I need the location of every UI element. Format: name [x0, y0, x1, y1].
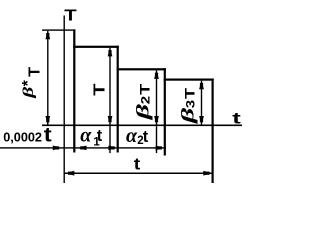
dimension D2 T line x=110 — [109, 48, 110, 125]
svg-text:t: t — [143, 128, 149, 146]
wire: step1 right edge x=74.3 — [73, 29, 75, 152]
wire: step4 right edge x=212.6 — [212, 79, 214, 184]
svg-text:t: t — [97, 127, 103, 145]
svg-text:T: T — [27, 67, 44, 77]
wire: step4 top y=79.6 — [164, 79, 214, 81]
arrow left tip x=65.8 — [66, 171, 75, 176]
arrow right tip x=164.9 — [156, 146, 165, 151]
svg-text:*: * — [20, 79, 37, 86]
arrow left tip x=75.6 — [78, 146, 87, 151]
dimension D4 beta3T line x=201.5 — [201, 81, 202, 125]
wire: step1 top line y=30.1 — [42, 29, 75, 30]
svg-text:0,0002: 0,0002 — [3, 130, 42, 144]
svg-text:t: t — [232, 109, 241, 127]
axis t (baseline) — [42, 125, 242, 127]
dimension D3 beta2T line x=156.5 — [156, 70, 157, 124]
svg-text:α: α — [80, 124, 92, 146]
svg-text:T: T — [90, 84, 108, 96]
wire: step2 right edge x=117.7 — [117, 46, 119, 153]
wire: step1 left edge extension line x=64.2 — [64, 16, 65, 184]
arrow right toward x=63.5 — [53, 146, 62, 151]
svg-text:β: β — [178, 107, 198, 124]
svg-text:T: T — [182, 88, 198, 99]
arrow right tip x=116.9 — [108, 146, 117, 151]
wire: step2 top y=46.8 — [73, 46, 119, 48]
svg-text:t: t — [44, 123, 53, 146]
svg-text:T: T — [64, 6, 76, 24]
wire: step3 top y=69.3 — [117, 68, 166, 70]
dimension row1 line y=147.9 — [0, 147, 166, 148]
arrow right tip x=211.8 — [203, 171, 212, 176]
svg-text:2: 2 — [139, 95, 152, 104]
svg-text:β: β — [20, 86, 36, 99]
dimension row2 overall t line y=173.2 — [64, 173, 212, 175]
svg-text:β: β — [133, 104, 153, 121]
wire: step3 right edge x=165.6 — [164, 68, 166, 155]
svg-text:α: α — [126, 125, 138, 147]
svg-text:t: t — [134, 154, 141, 173]
dimension D1 beta*T line x=47.8 — [47, 31, 48, 125]
svg-text:T: T — [137, 84, 153, 95]
